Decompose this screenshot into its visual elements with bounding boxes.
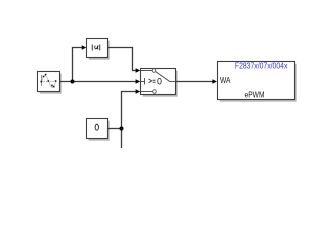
svg-text:WA: WA	[220, 76, 231, 85]
svg-text:ePWM: ePWM	[245, 90, 265, 100]
svg-text:F2837x/07x/004x: F2837x/07x/004x	[235, 62, 288, 71]
